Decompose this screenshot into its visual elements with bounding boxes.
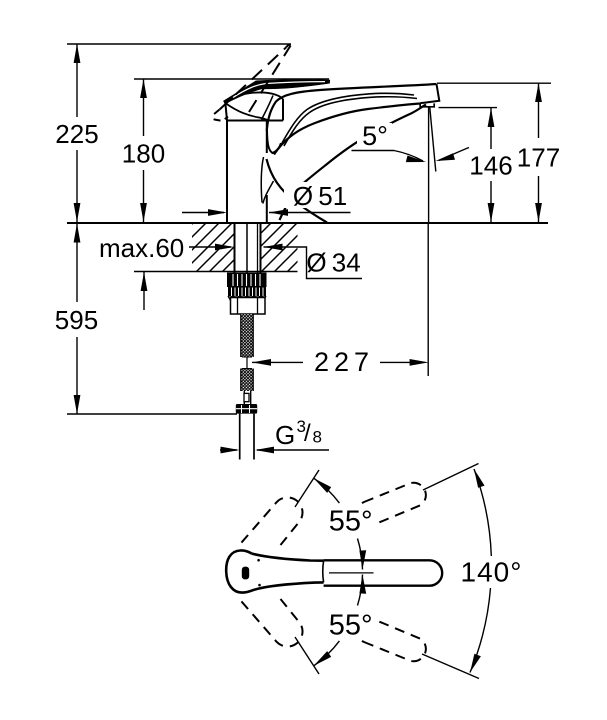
svg-text:5°: 5° <box>362 121 388 151</box>
svg-text:180: 180 <box>122 138 165 168</box>
svg-text:146: 146 <box>469 150 512 180</box>
svg-text:140°: 140° <box>461 556 523 587</box>
svg-text:55°: 55° <box>329 609 373 641</box>
svg-text:8: 8 <box>313 427 322 446</box>
svg-text:Ø 51: Ø 51 <box>293 181 347 211</box>
svg-text:/: / <box>304 420 311 447</box>
svg-text:595: 595 <box>55 305 98 335</box>
svg-text:177: 177 <box>517 142 560 172</box>
svg-text:227: 227 <box>314 347 374 377</box>
svg-text:max.60: max.60 <box>99 233 184 263</box>
svg-text:55°: 55° <box>329 506 373 538</box>
svg-text:G: G <box>275 420 295 450</box>
svg-text:Ø 34: Ø 34 <box>306 248 360 278</box>
svg-text:225: 225 <box>55 119 98 149</box>
